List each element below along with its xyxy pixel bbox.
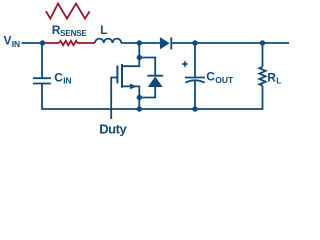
svg-text:IN: IN <box>12 39 21 49</box>
svg-text:Duty: Duty <box>99 121 127 136</box>
svg-text:C: C <box>206 70 215 84</box>
svg-text:SENSE: SENSE <box>60 29 87 38</box>
svg-text:R: R <box>267 71 276 85</box>
svg-text:OUT: OUT <box>215 75 234 85</box>
svg-text:IN: IN <box>63 76 71 86</box>
svg-text:V: V <box>4 34 12 48</box>
svg-text:C: C <box>54 70 63 84</box>
svg-text:L: L <box>100 25 107 37</box>
svg-text:L: L <box>276 76 281 86</box>
